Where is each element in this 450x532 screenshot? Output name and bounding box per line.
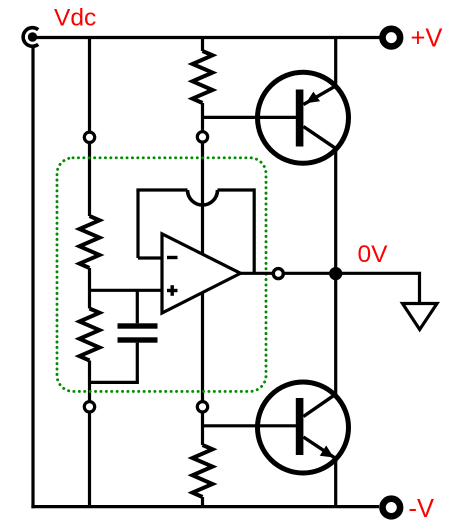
capacitor C1 top lead (136, 290, 139, 323)
wire right vertical rail middle segment (334, 148, 337, 396)
wire right vertical rail upper segment (334, 38, 337, 88)
transistor Q1 collector lead (303, 127, 336, 149)
svg-text:+V: +V (411, 25, 443, 53)
ground symbol (403, 304, 438, 330)
wire Q2 base from middle branch (203, 424, 298, 427)
op-amp U1 plus symbol (167, 285, 178, 296)
box dashed green region (57, 158, 266, 392)
wire feedback top right segment (218, 188, 255, 191)
node open circle middle upper (197, 132, 207, 142)
resistor R2 (80, 309, 100, 361)
wire feedback left vertical (136, 190, 139, 258)
wire plus input (90, 289, 164, 292)
wire op-amp output (241, 272, 274, 275)
transistor Q2 body (258, 382, 349, 473)
transistor Q1 base bar (296, 90, 304, 147)
transistor Q2 collector lead (303, 394, 336, 417)
svg-text:-V: -V (409, 495, 435, 523)
wire right vertical rail lower segment (334, 459, 337, 507)
capacitor C1 bottom lead (136, 343, 139, 383)
wire lower node to bottom rail (88, 412, 91, 507)
resistor R3 (193, 51, 213, 103)
junction dot output node (329, 267, 342, 280)
op-amp U1 triangle (162, 234, 241, 313)
node open circle op-amp output pin (273, 269, 283, 279)
wire feedback top left segment (136, 188, 187, 191)
resistor R1 (80, 216, 100, 268)
transistor Q2 base bar (296, 398, 304, 455)
wire feedback right vertical to output (253, 188, 256, 273)
wire Q1 base from middle branch (203, 116, 298, 119)
wire R2 to lower node (88, 361, 91, 403)
svg-text:Vdc: Vdc (54, 5, 96, 32)
wire R1 to plus-input tee (88, 268, 91, 309)
node open circle left lower (84, 402, 94, 412)
wire top rail Vdc to +V (36, 36, 380, 39)
wire middle vertical through op-amp region (201, 142, 204, 402)
transistor Q1 body (258, 72, 349, 163)
op-amp U1 minus symbol (167, 256, 178, 259)
node open circle middle lower (197, 402, 207, 412)
wire R4 to bottom rail (201, 497, 204, 507)
transistor Q2 emitter lead (303, 437, 336, 459)
svg-text:0V: 0V (358, 241, 389, 268)
wire capacitor bottom to left branch (90, 381, 139, 384)
wire lower middle node to R4 (201, 412, 204, 445)
wire left resistor branch from top rail (88, 38, 91, 133)
transistor Q1 emitter arrow (points into bar, PNP) (306, 92, 320, 104)
capacitor C1 top plate (118, 323, 158, 328)
terminal +V (383, 29, 401, 47)
wire minus input (138, 256, 163, 259)
wire left vertical rail (31, 47, 34, 508)
wire node to resistor R1 (88, 143, 91, 217)
terminal Vdc input (23, 28, 38, 47)
wire middle branch from top rail (201, 38, 204, 52)
wire R3 to middle upper node (201, 103, 204, 132)
wire output to ground corner (284, 273, 420, 303)
resistor R4 (193, 445, 213, 497)
transistor Q2 emitter arrow (points out, NPN) (320, 446, 334, 458)
wire feedback hop over middle branch (188, 190, 218, 205)
node open circle left upper (84, 132, 94, 142)
terminal -V (383, 499, 401, 517)
transistor Q1 emitter lead (303, 86, 336, 105)
wire bottom rail to -V (31, 505, 379, 508)
capacitor C1 bottom plate (118, 337, 158, 342)
